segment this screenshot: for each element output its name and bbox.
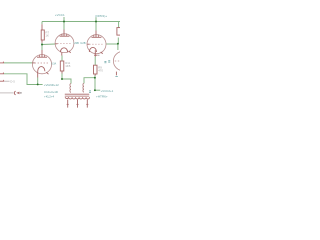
svg-text:+HTR6+: +HTR6+ bbox=[96, 95, 108, 99]
svg-text:+VCC2+1: +VCC2+1 bbox=[101, 89, 114, 93]
svg-text:U3A: U3A bbox=[51, 63, 56, 66]
svg-text:U2B: U2B bbox=[80, 41, 85, 45]
svg-text:(OPR1)+: (OPR1)+ bbox=[95, 14, 107, 18]
svg-text:+KL2+4: +KL2+4 bbox=[44, 95, 55, 99]
svg-text:470: 470 bbox=[98, 68, 103, 72]
svg-text:1K: 1K bbox=[45, 33, 49, 37]
svg-text:+VCC1: +VCC1 bbox=[55, 13, 65, 17]
svg-text:C10+3+1D: C10+3+1D bbox=[44, 90, 58, 94]
svg-text:D-5: D-5 bbox=[10, 80, 15, 84]
svg-text:1K5: 1K5 bbox=[65, 64, 71, 68]
svg-text:+VGND+12: +VGND+12 bbox=[44, 83, 59, 87]
svg-text:U3B: U3B bbox=[74, 41, 79, 45]
